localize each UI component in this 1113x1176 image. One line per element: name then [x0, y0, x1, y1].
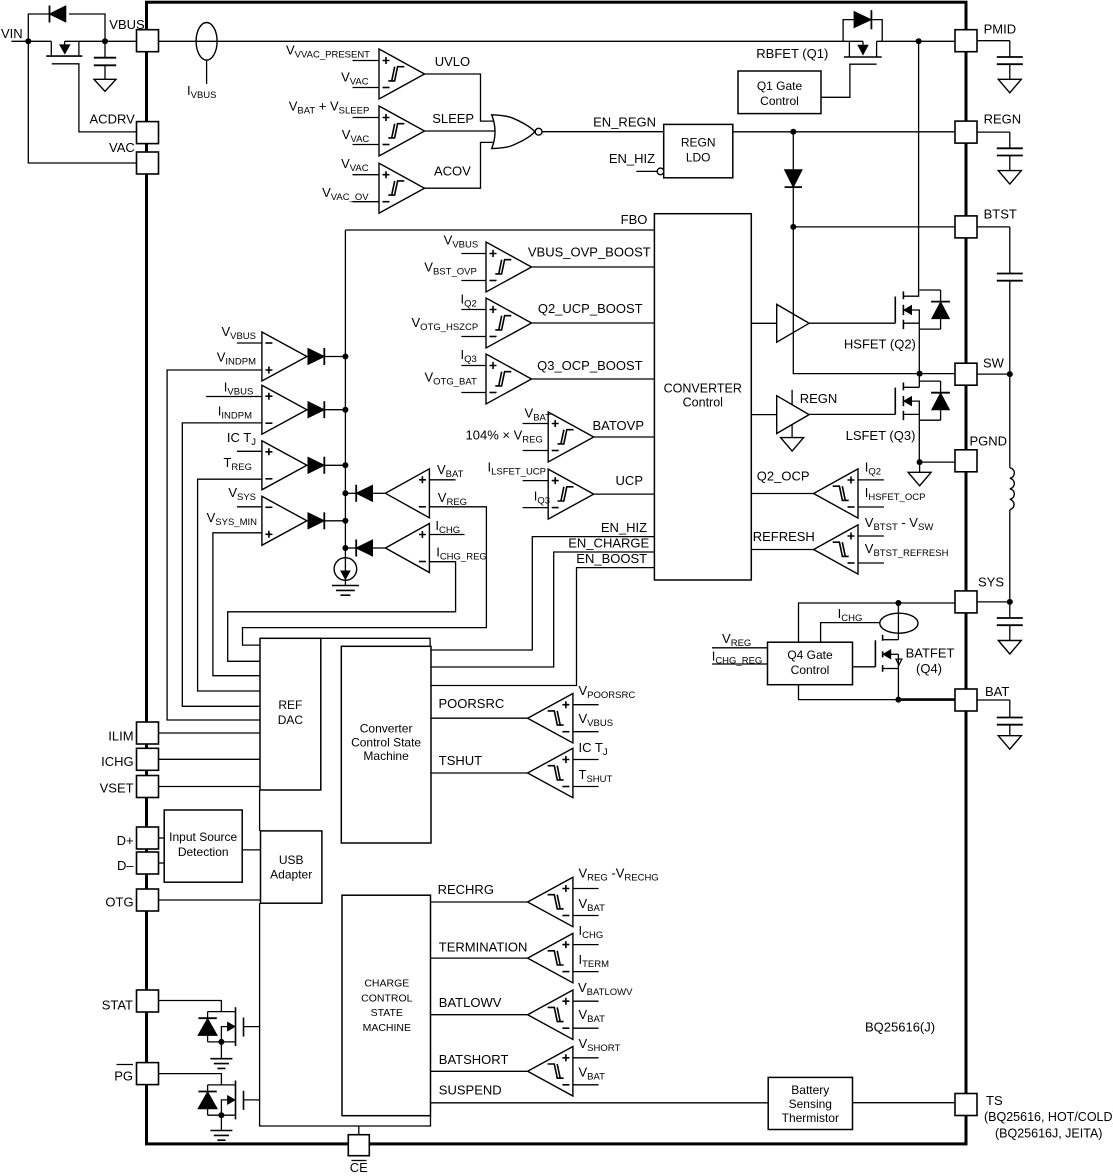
svg-text:BQ25616(J): BQ25616(J) — [865, 1020, 935, 1035]
svg-text:D+: D+ — [117, 833, 134, 848]
gate NOR U1 — [492, 115, 535, 149]
svg-text:EN_REGN: EN_REGN — [593, 114, 656, 129]
wire EN_REGN — [542, 131, 664, 133]
svg-text:VOTG_BAT: VOTG_BAT — [424, 370, 477, 388]
svg-text:Q1 Gate: Q1 Gate — [757, 79, 803, 93]
wire Q2_UCP - input — [461, 336, 486, 338]
svg-text:EN_BOOST: EN_BOOST — [576, 551, 647, 566]
svg-text:CONVERTER: CONVERTER — [664, 382, 742, 396]
ground PMID cap — [998, 79, 1021, 93]
pin D- — [137, 852, 159, 874]
wire BATSHORT - input — [573, 1084, 599, 1086]
svg-text:(Q4): (Q4) — [916, 661, 942, 676]
diode amp4 — [308, 513, 324, 529]
svg-text:ILIM: ILIM — [108, 728, 133, 743]
svg-text:BATFET: BATFET — [906, 646, 955, 661]
comparator BATOVP — [548, 412, 594, 462]
svg-text:VVAC: VVAC — [341, 70, 369, 88]
wire Q3_OCP output — [532, 378, 655, 380]
wire VBUS rail — [159, 40, 864, 42]
transistor RBFET Q1 — [848, 41, 850, 56]
wire REGN to diode — [792, 132, 794, 170]
svg-text:EN_HIZ: EN_HIZ — [601, 520, 647, 535]
svg-text:MACHINE: MACHINE — [363, 1022, 411, 1034]
wire amp4 + input / VSYS_MIN feedback — [213, 533, 262, 676]
svg-text:VVBUS: VVBUS — [221, 324, 256, 342]
wire STAT gate lead — [244, 1026, 260, 1028]
wire BAT rail bold — [898, 698, 954, 701]
pin BTST — [955, 216, 977, 238]
wire input diode branch — [28, 14, 49, 41]
svg-text:Q2_OCP: Q2_OCP — [757, 469, 810, 484]
wire PG FET top rail — [208, 1084, 236, 1086]
wire BATSHORT + input — [573, 1057, 599, 1059]
amplifier IINDPM-loop — [262, 385, 307, 434]
svg-text:OTG: OTG — [105, 895, 133, 910]
wire amp2 - input / IINDPM feedback — [182, 423, 262, 706]
block CHARGE CONTROL STATE MACHINE — [342, 895, 431, 1115]
wire Q2_UCP output — [532, 322, 655, 324]
wire ACOV + input — [353, 174, 380, 176]
node bus-amp2 — [342, 407, 348, 413]
block Q1 Gate Control — [738, 71, 821, 114]
node REGN branch — [790, 129, 796, 135]
svg-text:Q3_OCP_BOOST: Q3_OCP_BOOST — [537, 358, 643, 373]
svg-text:VIN: VIN — [1, 26, 23, 41]
svg-text:ICHG: ICHG — [579, 923, 604, 941]
svg-text:SW: SW — [983, 356, 1005, 371]
wire Q3_OCP - input — [461, 392, 486, 394]
svg-text:Battery: Battery — [791, 1083, 829, 1097]
wire PG gate lead — [244, 1099, 260, 1101]
diode ampL2 — [356, 540, 372, 556]
svg-text:VREG: VREG — [722, 631, 751, 649]
inductor L1 — [1009, 374, 1011, 468]
svg-text:TERMINATION: TERMINATION — [439, 940, 528, 955]
node BTST branch — [790, 224, 796, 230]
comparator POORSRC — [528, 693, 573, 743]
wire PG FET bottom rail — [208, 1114, 236, 1116]
wire amp3 - input / TREG feedback — [198, 479, 262, 691]
svg-text:VBUS_OVP_BOOST: VBUS_OVP_BOOST — [528, 244, 651, 259]
node bus-ampL1 — [342, 490, 348, 496]
block REF DAC — [260, 638, 321, 790]
svg-text:VBAT: VBAT — [579, 1007, 606, 1025]
wire SW pin to inductor — [977, 373, 1010, 375]
wire TERMINATION output — [431, 957, 528, 959]
ground REGN cap — [998, 171, 1021, 185]
wire Q2_OCP output — [751, 493, 813, 495]
ground PG — [220, 1115, 222, 1130]
svg-text:VVAC: VVAC — [342, 127, 370, 145]
wire TSHUT output — [431, 772, 528, 774]
svg-text:Q4 Gate: Q4 Gate — [787, 648, 833, 662]
svg-text:PGND: PGND — [970, 434, 1008, 449]
wire STAT to FET — [159, 1001, 222, 1012]
node bus-amp1 — [342, 354, 348, 360]
ground LSFET driver — [791, 425, 793, 438]
svg-text:SYS: SYS — [978, 575, 1004, 590]
svg-text:Sensing: Sensing — [789, 1097, 832, 1111]
svg-text:HSFET (Q2): HSFET (Q2) — [844, 337, 916, 352]
svg-text:REFRESH: REFRESH — [753, 529, 815, 544]
node bus-amp3 — [342, 462, 348, 468]
wire BATOVP + input — [523, 423, 549, 425]
ground VBUS input cap — [94, 79, 116, 91]
wire POORSRC - input — [573, 731, 599, 733]
svg-text:POORSRC: POORSRC — [439, 696, 505, 711]
comparator REFRESH — [814, 525, 858, 574]
wire POORSRC output — [431, 717, 528, 719]
wire PG to FET — [159, 1074, 222, 1085]
svg-text:Input Source: Input Source — [169, 830, 237, 844]
wire SLEEP - input — [353, 144, 380, 146]
svg-text:UCP: UCP — [616, 473, 643, 488]
svg-text:LSFET (Q3): LSFET (Q3) — [846, 428, 916, 443]
wire VREG stub Q4 — [712, 647, 768, 649]
wire VBUS_OVP - input — [461, 280, 486, 282]
svg-text:Control: Control — [760, 94, 799, 108]
amplifier VINDPM-loop — [262, 332, 307, 381]
wire BATLOWV - input — [573, 1027, 599, 1029]
wire SW to pin — [920, 373, 955, 375]
node PG source — [218, 1112, 224, 1118]
wire SLEEP + input — [353, 117, 380, 119]
pin D+ — [137, 827, 159, 849]
wire LSFET gate — [809, 413, 895, 415]
wire SYS to BATFET drain — [897, 603, 899, 640]
node SYS cap junction — [1007, 599, 1013, 605]
comparator UCP — [548, 469, 594, 519]
svg-text:VVAC: VVAC — [341, 156, 369, 174]
pin ACDRV — [137, 122, 159, 144]
diode Q1 body — [854, 12, 871, 28]
svg-text:VVVAC_PRESENT: VVVAC_PRESENT — [286, 43, 370, 61]
svg-text:IQ3: IQ3 — [460, 347, 476, 365]
wire thermistor to TS pin — [853, 1102, 955, 1104]
comparator BATSHORT — [528, 1047, 573, 1097]
node bus-amp4 — [342, 518, 348, 524]
wire LSFET driver REGN supply — [791, 390, 793, 405]
wire ampL2 - input / ICHG_REG feedback — [228, 562, 456, 662]
wire Q4 gate lead — [853, 666, 876, 668]
wire RECHRG + input — [573, 888, 599, 890]
pin REGN — [955, 121, 977, 143]
pin ILIM — [137, 722, 159, 744]
capacitor SYS — [977, 601, 1010, 603]
comparator TSHUT — [528, 748, 573, 798]
IC boundary — [147, 2, 967, 1144]
comparator Q3_OCP_BOOST — [486, 354, 532, 404]
ground BAT cap — [998, 736, 1021, 750]
svg-text:VVBUS: VVBUS — [579, 711, 614, 729]
pin PGND — [955, 450, 977, 472]
capacitor REGN — [977, 131, 1010, 133]
wire EN_HIZ stub — [636, 170, 657, 172]
current source bus bias — [334, 558, 357, 581]
wire STAT FET bottom rail — [208, 1041, 236, 1043]
comparator VBUS_OVP_BOOST — [486, 242, 532, 292]
svg-text:RECHRG: RECHRG — [438, 882, 494, 897]
svg-text:Machine: Machine — [363, 749, 409, 763]
svg-text:VBATLOWV: VBATLOWV — [578, 980, 633, 998]
pin PG — [137, 1063, 159, 1085]
diode amp3 — [308, 457, 324, 473]
wire summing bus — [344, 230, 346, 558]
comparator TERMINATION — [528, 933, 573, 983]
transistor STAT FET — [235, 1007, 237, 1046]
svg-text:ICHG: ICHG — [838, 606, 863, 624]
svg-text:EN_HIZ: EN_HIZ — [609, 151, 655, 166]
wire TSHUT - input — [573, 786, 599, 788]
wire BATLOWV + input — [573, 1000, 599, 1002]
svg-text:VAC: VAC — [109, 140, 135, 155]
svg-text:IVBUS: IVBUS — [224, 380, 253, 398]
svg-text:Detection: Detection — [178, 845, 229, 859]
svg-text:VBAT: VBAT — [579, 896, 606, 914]
svg-text:TSHUT: TSHUT — [579, 767, 613, 785]
diode REGN-BTST — [785, 170, 802, 187]
transistor BATFET Q4 — [874, 640, 876, 667]
ground LSFET source — [919, 462, 921, 472]
wire TSHUT + input — [573, 759, 599, 761]
wire Q2_UCP + input — [461, 309, 486, 311]
svg-text:FBO: FBO — [621, 212, 648, 227]
svg-text:TSHUT: TSHUT — [439, 753, 482, 768]
pin CE — [348, 1135, 369, 1156]
wire PMID rail right — [877, 40, 955, 42]
node VIN-A — [25, 38, 31, 44]
wire amp1 + input / VINDPM feedback — [167, 370, 262, 720]
svg-text:VOTG_HSZCP: VOTG_HSZCP — [411, 315, 478, 333]
svg-text:104% × VREG: 104% × VREG — [466, 428, 543, 446]
svg-text:BATLOWV: BATLOWV — [439, 995, 502, 1010]
svg-text:UVLO: UVLO — [435, 54, 470, 69]
pin VSET — [137, 776, 159, 798]
pin PMID — [955, 30, 977, 52]
svg-text:Converter: Converter — [360, 722, 413, 736]
ground STAT — [220, 1042, 222, 1059]
block REGN LDO — [664, 124, 733, 177]
svg-text:VSYS: VSYS — [228, 485, 256, 503]
wire VIN to VBUS pin — [11, 40, 51, 42]
block CONVERTER Control — [654, 214, 751, 580]
diode ampL1 — [356, 485, 372, 501]
wire Q4 box to BAT rail — [799, 685, 899, 700]
wire HSFET gate — [809, 322, 895, 324]
wire CE to logic — [358, 1126, 360, 1136]
svg-text:VBTST_REFRESH: VBTST_REFRESH — [865, 541, 949, 559]
wire TERMINATION + input — [573, 944, 599, 946]
wire Q2_OCP - input — [858, 506, 884, 508]
svg-text:VBAT: VBAT — [437, 462, 464, 480]
svg-text:ACOV: ACOV — [434, 164, 471, 179]
wire SUSPEND — [431, 1102, 769, 1104]
svg-text:VBAT: VBAT — [525, 406, 552, 424]
svg-text:BATOVP: BATOVP — [592, 418, 644, 433]
svg-text:Q2_UCP_BOOST: Q2_UCP_BOOST — [538, 301, 643, 316]
block Converter Control State Machine — [341, 646, 431, 843]
pin STAT — [137, 990, 159, 1012]
ground SYS cap — [998, 641, 1021, 655]
capacitor PMID — [977, 40, 1010, 42]
svg-text:VSYS_MIN: VSYS_MIN — [207, 510, 258, 528]
svg-text:LDO: LDO — [686, 151, 711, 165]
svg-text:BAT: BAT — [985, 684, 1009, 699]
wire detection to USB — [242, 849, 260, 851]
wire SYS to Q4 box — [799, 603, 899, 642]
svg-text:VREG -VRECHG: VREG -VRECHG — [579, 866, 659, 884]
wire ICHG to REF DAC — [159, 758, 261, 760]
svg-text:Control: Control — [683, 396, 723, 410]
wire diode to BTST line — [792, 187, 794, 227]
wire D+ to detection — [159, 837, 165, 839]
svg-text:VPOORSRC: VPOORSRC — [579, 683, 636, 701]
svg-text:VREG: VREG — [438, 490, 467, 508]
pin VBUS — [137, 30, 159, 52]
transistor HSFET Q2 — [918, 41, 920, 296]
wire amp4 - input — [237, 506, 262, 508]
svg-text:VVAC_OV: VVAC_OV — [322, 185, 369, 203]
comparator RECHRG — [528, 877, 573, 927]
diode STAT — [207, 1012, 209, 1019]
svg-text:ICHG: ICHG — [435, 518, 460, 536]
wire UCP + input — [523, 480, 549, 482]
svg-text:PG: PG — [114, 1069, 133, 1084]
wire BATOVP - input — [523, 450, 549, 452]
svg-text:RBFET (Q1): RBFET (Q1) — [756, 46, 828, 61]
svg-text:ILSFET_UCP: ILSFET_UCP — [487, 460, 546, 478]
wire FBO line — [345, 229, 654, 231]
wire REFRESH - input — [858, 562, 884, 564]
wire ampL1 + input — [429, 479, 455, 481]
svg-text:IINDPM: IINDPM — [218, 404, 252, 422]
amplifier VREG-loop — [385, 469, 429, 518]
svg-text:IQ2: IQ2 — [865, 460, 881, 478]
wire REGN LDO to REGN pin — [733, 131, 955, 133]
svg-text:IQ2: IQ2 — [460, 292, 476, 310]
svg-text:SLEEP: SLEEP — [432, 111, 474, 126]
svg-text:VBTST - VSW: VBTST - VSW — [865, 515, 934, 533]
wire ACFET gate to ACDRV — [52, 64, 137, 132]
wire Q1 bypass loop — [843, 20, 854, 42]
svg-text:SUSPEND: SUSPEND — [439, 1083, 502, 1098]
wire BATSHORT output — [431, 1070, 528, 1072]
svg-text:REGN: REGN — [984, 112, 1022, 127]
wire REFRESH output — [751, 549, 813, 551]
wire RECHRG - input — [573, 915, 599, 917]
wire BTST to SW bootstrap — [793, 227, 919, 374]
svg-text:VBST_OVP: VBST_OVP — [424, 260, 477, 278]
wire ICHG sense to Q4 box — [821, 623, 880, 643]
wire POORSRC + input — [573, 704, 599, 706]
wire UCP output — [594, 493, 655, 495]
wire BTST line — [793, 226, 954, 228]
node STAT source — [218, 1039, 224, 1045]
node SW junction — [917, 371, 923, 377]
wire VBUS_OVP output — [532, 266, 655, 268]
ground bus — [332, 586, 359, 596]
pin SW — [955, 363, 977, 385]
svg-text:ACDRV: ACDRV — [90, 111, 136, 126]
amplifier ICHG-loop — [385, 524, 429, 573]
wire ACOV output — [425, 142, 494, 188]
svg-text:Control: Control — [791, 663, 830, 677]
wire Q1 gate lead — [821, 64, 877, 97]
wire OTG to USB — [159, 899, 261, 901]
wire USB to gates and CE — [260, 903, 431, 1126]
wire SLEEP output — [425, 130, 496, 132]
block USB Adapter — [261, 831, 322, 903]
wire ampL2 + input — [429, 534, 464, 536]
wire STAT FET top rail — [208, 1011, 236, 1013]
wire VIN to VAC pin — [28, 41, 136, 163]
capacitor VBUS input — [104, 41, 106, 57]
node bus-ampL2 — [342, 545, 348, 551]
comparator UVLO — [379, 49, 425, 99]
wire EN_HIZ — [431, 537, 654, 650]
wire UCP - input — [523, 507, 549, 509]
capacitor BAT — [977, 699, 1010, 701]
transistor input ACFET — [50, 41, 52, 56]
svg-text:STAT: STAT — [102, 998, 133, 1013]
diode PG — [207, 1085, 209, 1092]
wire D- to detection — [159, 862, 165, 864]
wire EN_CHARGE — [431, 552, 654, 667]
svg-text:REGN: REGN — [800, 391, 838, 406]
wire Q3_OCP + input — [461, 365, 486, 367]
node PMID branch — [916, 38, 922, 44]
pin OTG — [137, 889, 159, 911]
svg-text:USB: USB — [279, 853, 304, 867]
wire BATOVP output — [594, 436, 655, 438]
svg-text:ICHG: ICHG — [101, 754, 134, 769]
svg-text:VSET: VSET — [100, 781, 134, 796]
svg-text:VINDPM: VINDPM — [217, 350, 256, 368]
svg-text:REF: REF — [278, 698, 302, 712]
svg-text:TS: TS — [986, 1093, 1003, 1108]
svg-text:VBUS: VBUS — [109, 17, 145, 32]
wire REFDAC to USB — [259, 790, 261, 831]
diode amp2 — [308, 402, 324, 418]
comparator ACOV — [379, 163, 425, 213]
svg-text:VVBUS: VVBUS — [444, 232, 479, 250]
wire TERMINATION - input — [573, 971, 599, 973]
svg-text:REGN: REGN — [681, 136, 716, 150]
driver HSFET — [751, 322, 776, 324]
node BAT junction — [895, 697, 901, 703]
pin VAC — [137, 152, 159, 174]
wire amp3 + input — [237, 450, 262, 452]
svg-text:BTST: BTST — [984, 207, 1017, 222]
svg-text:VSHORT: VSHORT — [579, 1036, 621, 1054]
wire PGND to pin — [920, 461, 955, 463]
svg-text:IC TJ: IC TJ — [227, 430, 256, 448]
svg-text:CHARGE: CHARGE — [364, 978, 409, 990]
wire ACOV - input — [353, 201, 380, 203]
node SYS junction — [895, 600, 901, 606]
wire VBUS_OVP + input — [461, 253, 486, 255]
svg-text:ICHG_REG: ICHG_REG — [436, 545, 487, 563]
svg-text:TREG: TREG — [223, 455, 252, 473]
capacitor BTST — [977, 226, 1010, 228]
svg-text:EN_CHARGE: EN_CHARGE — [568, 536, 649, 551]
transistor LSFET Q3 — [918, 374, 920, 388]
diode amp1 — [308, 349, 324, 365]
current sense IVBUS — [196, 23, 217, 61]
svg-text:PMID: PMID — [984, 22, 1017, 37]
wire EN_BOOST — [431, 568, 654, 686]
